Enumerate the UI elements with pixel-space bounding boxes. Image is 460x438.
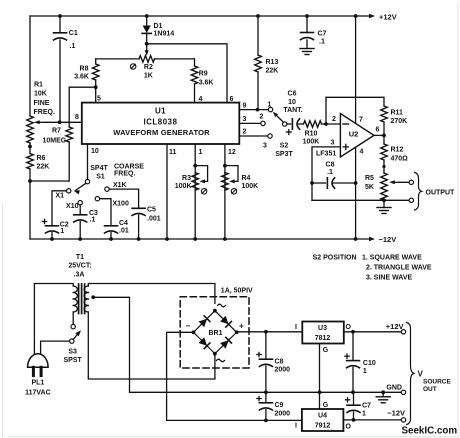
svg-text:R7: R7 [52, 128, 61, 135]
label pin 9 [243, 103, 247, 110]
wire primary bottom lead [72, 312, 74, 324]
svg-text:C7: C7 [318, 31, 327, 38]
svg-text:C8: C8 [326, 162, 335, 169]
trim symbol R2 [131, 64, 136, 69]
svg-text:−12V: −12V [379, 235, 397, 244]
label U2 pin 2 [332, 116, 336, 123]
svg-text:BR1: BR1 [208, 330, 222, 337]
svg-text:.3A: .3A [74, 271, 85, 278]
svg-text:.1: .1 [70, 43, 76, 50]
wire U2 pin4 [355, 147, 357, 239]
label R12 [391, 147, 409, 163]
svg-text:U4: U4 [318, 413, 327, 420]
trim symbol R4 [231, 189, 236, 194]
svg-text:FREQ.: FREQ. [114, 170, 135, 177]
wire bridge plus to U3 [237, 331, 303, 333]
label BR1 rating [221, 288, 253, 295]
label C1 [69, 30, 78, 50]
svg-text:5K: 5K [365, 184, 374, 191]
svg-text:3: 3 [331, 139, 335, 146]
wire pin 10 [87, 144, 89, 179]
transformer T1 primary winding [73, 286, 77, 312]
wire lower output line [312, 199, 409, 201]
capacitor C1 [54, 16, 67, 122]
svg-text:X100: X100 [113, 200, 129, 207]
svg-text:7: 7 [359, 117, 363, 124]
label pin 11 [169, 149, 177, 156]
svg-text:X10: X10 [66, 203, 79, 210]
label +12V [379, 12, 397, 21]
svg-text:3: 3 [263, 142, 267, 149]
diode D1 [142, 16, 151, 44]
svg-text:.001: .001 [147, 215, 161, 222]
node bottom rail junctions [50, 237, 357, 241]
wire pin 11 [166, 144, 168, 239]
svg-text:V: V [418, 369, 424, 378]
svg-text:SPST: SPST [63, 357, 82, 364]
label D1 [154, 23, 175, 37]
svg-text:8: 8 [75, 114, 79, 121]
svg-text:.1: .1 [327, 169, 333, 176]
svg-text:1A, 50PIV: 1A, 50PIV [221, 288, 253, 295]
svg-text:S2: S2 [280, 143, 289, 150]
bridge diode top-left [199, 316, 210, 327]
label BR1 ac bottom [217, 359, 225, 362]
svg-text:12: 12 [228, 149, 236, 156]
svg-text:COARSE: COARSE [114, 163, 144, 170]
svg-text:SP3T: SP3T [275, 151, 293, 158]
wire pin 9 [239, 109, 268, 111]
svg-text:R2: R2 [144, 64, 153, 71]
wire U4 ground pin [319, 392, 321, 409]
svg-text:7912: 7912 [315, 423, 331, 430]
switch S1 contact X1K [105, 182, 127, 192]
svg-text:WAVEFORM GENERATOR: WAVEFORM GENERATOR [113, 128, 210, 137]
svg-text:3.6K: 3.6K [199, 79, 214, 86]
svg-text:G: G [323, 402, 329, 409]
label V source out [418, 369, 452, 393]
wire R8 to pin8 node [69, 87, 96, 122]
svg-text:I: I [295, 423, 297, 430]
label U4 input I [295, 423, 297, 430]
capacitor C4 [105, 226, 118, 239]
svg-text:LF351: LF351 [316, 151, 336, 158]
terminal -12V [401, 418, 405, 422]
label GND [386, 384, 402, 391]
label R8 [74, 66, 89, 81]
label R3 [175, 175, 192, 190]
ground below R5 [377, 200, 391, 213]
svg-text:R4: R4 [242, 175, 251, 182]
switch S1 pole [85, 179, 89, 183]
svg-text:100K: 100K [175, 183, 192, 190]
label C8 2000 [275, 358, 291, 373]
svg-text:R1: R1 [34, 82, 43, 89]
wire pin 12 [224, 144, 226, 239]
wire -12V bottom rail [30, 237, 375, 241]
node C10 top [351, 330, 355, 334]
svg-text:I: I [295, 324, 297, 331]
svg-text:C1: C1 [69, 30, 78, 37]
svg-text:OUTPUT: OUTPUT [426, 189, 456, 196]
svg-text:R11: R11 [391, 110, 404, 117]
svg-text:22K: 22K [266, 67, 279, 74]
terminal output upper [409, 180, 413, 184]
label pin 12 [228, 149, 236, 156]
label PL1 [25, 380, 51, 397]
svg-text:PL1: PL1 [31, 380, 44, 387]
ground below C7 [300, 49, 314, 55]
wire X100 to C4 [100, 199, 111, 226]
resistor R9 [191, 59, 198, 103]
node pin6 junction [382, 134, 386, 138]
capacitor C8 feedback [310, 178, 357, 188]
svg-text:R13: R13 [266, 59, 279, 66]
svg-text:3.6K: 3.6K [74, 74, 89, 81]
node top rail junctions [58, 14, 357, 18]
node R13-pin9 junction [256, 108, 260, 112]
wire S3 to plug [41, 341, 70, 354]
svg-text:R9: R9 [199, 71, 208, 78]
switch S2 contact 3 [263, 134, 272, 150]
svg-text:.01: .01 [119, 227, 129, 234]
node C8 top [264, 330, 268, 334]
svg-text:+12V: +12V [379, 12, 397, 21]
label R1 [34, 82, 55, 117]
transformer T1 secondary winding [84, 286, 88, 312]
switch S1 contact X100 [95, 197, 129, 208]
wire pin 3 [239, 122, 260, 124]
terminal GND [401, 390, 405, 394]
label U3 G [323, 347, 329, 354]
capacitor C3 [74, 215, 87, 239]
node left rail lower junction [28, 179, 32, 183]
label C4 [119, 220, 129, 235]
svg-text:X1: X1 [56, 193, 65, 200]
svg-text:OUT: OUT [423, 386, 437, 393]
svg-text:ICL8038: ICL8038 [143, 117, 177, 126]
label R4 [242, 175, 259, 190]
node GND rail at C8 [264, 390, 268, 394]
label U3 output O [346, 324, 352, 331]
node C9 bottom [264, 419, 268, 423]
label C7 1 [362, 403, 371, 418]
label C9 2000 [275, 402, 291, 417]
capacitor C7 bypass [301, 16, 314, 49]
node U3 G rail [318, 390, 322, 394]
svg-text:470Ω: 470Ω [391, 155, 409, 162]
svg-text:C9: C9 [275, 402, 284, 409]
wire U2 pin6 out [374, 127, 384, 136]
label R13 [266, 59, 279, 74]
svg-text:10: 10 [288, 99, 296, 106]
svg-text:SeekIC.com: SeekIC.com [402, 426, 458, 437]
capacitor C9 2000 [257, 392, 273, 420]
label R7 [43, 128, 67, 145]
svg-text:11: 11 [169, 149, 177, 156]
label S2 [275, 143, 293, 158]
svg-text:6: 6 [376, 127, 380, 134]
capacitor C10 [345, 332, 360, 393]
plug PL1 [28, 354, 48, 376]
terminal output lower [409, 198, 413, 202]
switch S3 contact [71, 324, 75, 328]
svg-text:1: 1 [60, 228, 64, 235]
potentiometer R5 [381, 173, 409, 200]
node pin2 U2 junction [324, 122, 328, 126]
IC U1 ICL8038 [82, 103, 240, 144]
label pin 1 [199, 149, 203, 156]
wire center tap to ground rail [93, 297, 401, 392]
svg-text:U1: U1 [155, 107, 166, 116]
label U4 output O [346, 424, 352, 431]
svg-text:X1K: X1K [113, 182, 127, 189]
label -12V out [387, 408, 405, 417]
resistor R8 [92, 59, 99, 103]
svg-text:C5: C5 [147, 206, 156, 213]
switch S1 contact X10 [66, 201, 82, 211]
brace v source [407, 323, 414, 425]
regulator U4 7912 [302, 409, 344, 431]
bridge BR1 dashed box [180, 297, 249, 368]
switch S3 arm [73, 330, 81, 339]
svg-text:FREQ.: FREQ. [34, 109, 55, 116]
svg-text:3: 3 [243, 116, 247, 123]
svg-text:S3: S3 [68, 349, 77, 356]
svg-text:9: 9 [243, 103, 247, 110]
wire +12V top rail [30, 14, 375, 18]
svg-text:1: 1 [363, 368, 367, 375]
wire U4 output [343, 419, 401, 421]
label +12V out [386, 322, 404, 331]
label pin 6 top [230, 96, 234, 103]
label S1 [90, 165, 108, 180]
label C10 [363, 360, 376, 375]
label R9 [199, 71, 214, 87]
potentiometer R2 [96, 44, 195, 62]
svg-text:25VCT:: 25VCT: [68, 263, 91, 270]
rheostat R4 wiper loop [225, 166, 238, 184]
svg-text:.1: .1 [319, 39, 325, 46]
svg-text:3. SINE WAVE: 3. SINE WAVE [366, 274, 412, 281]
svg-text:100K: 100K [242, 183, 259, 190]
node R1 bottom [28, 145, 32, 149]
regulator U3 7812 [302, 322, 344, 344]
wire X1K to C5 [109, 189, 138, 208]
ground at output [376, 392, 390, 403]
switch S2 contact 2 [260, 114, 266, 126]
svg-text:O: O [346, 424, 352, 431]
switch S3 pole [70, 339, 74, 343]
svg-text:SP4T: SP4T [90, 165, 108, 172]
wire primary top lead [34, 284, 73, 355]
label pin 4 top [199, 96, 203, 103]
rheostat R3 wiper loop [195, 166, 207, 184]
label C3 [89, 210, 98, 224]
svg-text:10MEG: 10MEG [43, 138, 67, 145]
label U2 pin 7 [359, 117, 363, 124]
potentiometer R1 [27, 116, 44, 143]
wire U2 pin2 [326, 123, 340, 125]
node T1 center tap [91, 295, 95, 299]
svg-text:10: 10 [91, 148, 99, 155]
svg-text:C7: C7 [362, 403, 371, 410]
svg-text:100K: 100K [303, 139, 320, 146]
wire X10 to C3 [79, 205, 81, 215]
svg-text:5: 5 [97, 96, 101, 103]
label COARSE FREQ [114, 163, 144, 177]
wire left rail [29, 16, 31, 239]
capacitor C5 [132, 208, 145, 239]
svg-text:S1: S1 [96, 173, 105, 180]
svg-text:−: − [186, 321, 191, 330]
svg-text:−12V: −12V [387, 408, 405, 417]
label S3 [63, 349, 82, 364]
resistor R11 [381, 106, 388, 135]
svg-text:1K: 1K [144, 72, 153, 79]
svg-text:TANT.: TANT. [283, 107, 302, 114]
label pin 5 [97, 96, 101, 103]
svg-text:1: 1 [362, 411, 366, 418]
node R8 bottom [94, 85, 98, 89]
svg-text:FINE: FINE [34, 100, 50, 107]
label C7 bypass [318, 31, 327, 46]
svg-text:270K: 270K [391, 118, 408, 125]
svg-text:G: G [323, 347, 329, 354]
label C6 plus [286, 130, 291, 135]
svg-text:R3: R3 [182, 175, 191, 182]
wire feedback pin2 to R11 [326, 97, 384, 124]
op-amp U2 LF351 [340, 114, 374, 158]
svg-text:S2 POSITION: S2 POSITION [313, 255, 357, 262]
svg-text:R6: R6 [37, 155, 46, 162]
label pin 10 [91, 148, 99, 155]
bridge nodes [192, 309, 239, 356]
label OUTPUT [426, 189, 456, 196]
bridge BR1 diamond [194, 311, 237, 354]
svg-text:C6: C6 [288, 91, 297, 98]
switch S2 pole [273, 112, 287, 126]
label R11 [391, 110, 408, 126]
svg-text:R5: R5 [365, 175, 374, 182]
svg-text:4: 4 [360, 149, 364, 156]
svg-text:R8: R8 [80, 66, 89, 73]
svg-text:C10: C10 [363, 360, 376, 367]
bridge diode bottom-right [220, 337, 231, 348]
svg-text:R10: R10 [305, 131, 318, 138]
svg-text:C8: C8 [275, 358, 284, 365]
node C1-wiper junction [58, 120, 62, 124]
trim symbol R3 [201, 189, 206, 194]
node C7 bottom node [352, 418, 356, 422]
wire pin 1 [194, 144, 196, 239]
svg-text:2. TRIANGLE WAVE: 2. TRIANGLE WAVE [366, 265, 432, 272]
svg-text:117VAC: 117VAC [25, 389, 51, 396]
label U3 input I [295, 324, 297, 331]
svg-text:T1: T1 [76, 254, 84, 261]
svg-text:10K: 10K [34, 91, 47, 98]
brace output [415, 173, 422, 211]
wire U2 pin7 [355, 16, 357, 123]
wire secondary bottom lead [88, 312, 215, 379]
svg-text:1: 1 [268, 102, 272, 109]
capacitor C6 [287, 119, 304, 129]
label R5 [365, 175, 374, 191]
label U4 G [323, 402, 329, 409]
label C5 [147, 206, 161, 222]
svg-text:2: 2 [243, 129, 247, 136]
wire D1 to pin6 [147, 44, 227, 103]
label BR1 [208, 330, 222, 337]
label -12V [379, 235, 397, 244]
svg-text:U2: U2 [349, 130, 359, 139]
svg-text:7812: 7812 [315, 335, 331, 342]
wire U3 ground pin [319, 344, 321, 393]
node gnd symbol junction [381, 390, 385, 394]
label C6 [283, 91, 302, 115]
svg-text:2000: 2000 [275, 410, 291, 417]
resistor R12 [381, 135, 388, 173]
rheostat R4 [222, 173, 229, 191]
capacitor C2 [42, 219, 58, 239]
node R4 top [223, 164, 227, 168]
svg-text:22K: 22K [37, 164, 50, 171]
svg-text:SOURCE: SOURCE [423, 379, 451, 386]
label C2 [60, 222, 69, 235]
label LF351 [316, 151, 336, 158]
svg-text:C4: C4 [119, 220, 128, 227]
rheostat R3 [192, 173, 199, 191]
svg-text:O: O [346, 324, 352, 331]
node R5 bottom [382, 198, 386, 202]
label R10 [303, 131, 320, 146]
wire X1 to C2 [52, 191, 67, 226]
capacitor C7 1 [345, 392, 360, 420]
wire U3 output [344, 331, 402, 333]
label BR1 minus [186, 321, 191, 330]
node R12-R5 junction [382, 165, 385, 168]
label pin 8 [75, 114, 79, 121]
capacitor C8 2000 [257, 332, 273, 393]
label S2 position list [313, 255, 432, 282]
node C10 bottom [351, 390, 355, 394]
wire bridge minus [167, 332, 302, 420]
bridge diode bottom-left [199, 337, 210, 348]
label pin 3 [243, 116, 247, 123]
label C8 feedback [326, 162, 335, 177]
svg-text:1. SQUARE WAVE: 1. SQUARE WAVE [362, 255, 422, 262]
wire U2 pin3 [312, 147, 340, 200]
resistor R10 [304, 121, 327, 128]
node R3 top [193, 164, 197, 168]
terminal +12V [401, 330, 405, 334]
wire secondary top lead [88, 284, 215, 304]
svg-text:2: 2 [332, 116, 336, 123]
svg-text:GND: GND [386, 384, 402, 391]
label T1 [68, 254, 91, 278]
label BR1 plus [239, 321, 244, 330]
label BR1 ac top [218, 304, 226, 307]
node D1 bottom [145, 42, 149, 46]
switch S1 arm [74, 183, 86, 194]
svg-text:2000: 2000 [275, 367, 291, 374]
label R6 [37, 155, 50, 171]
resistor R7 [30, 122, 73, 181]
label pin 2 [243, 129, 247, 136]
wire pin8 line [44, 121, 82, 123]
bridge diode top-right [220, 316, 231, 327]
svg-text:.1: .1 [90, 216, 96, 223]
